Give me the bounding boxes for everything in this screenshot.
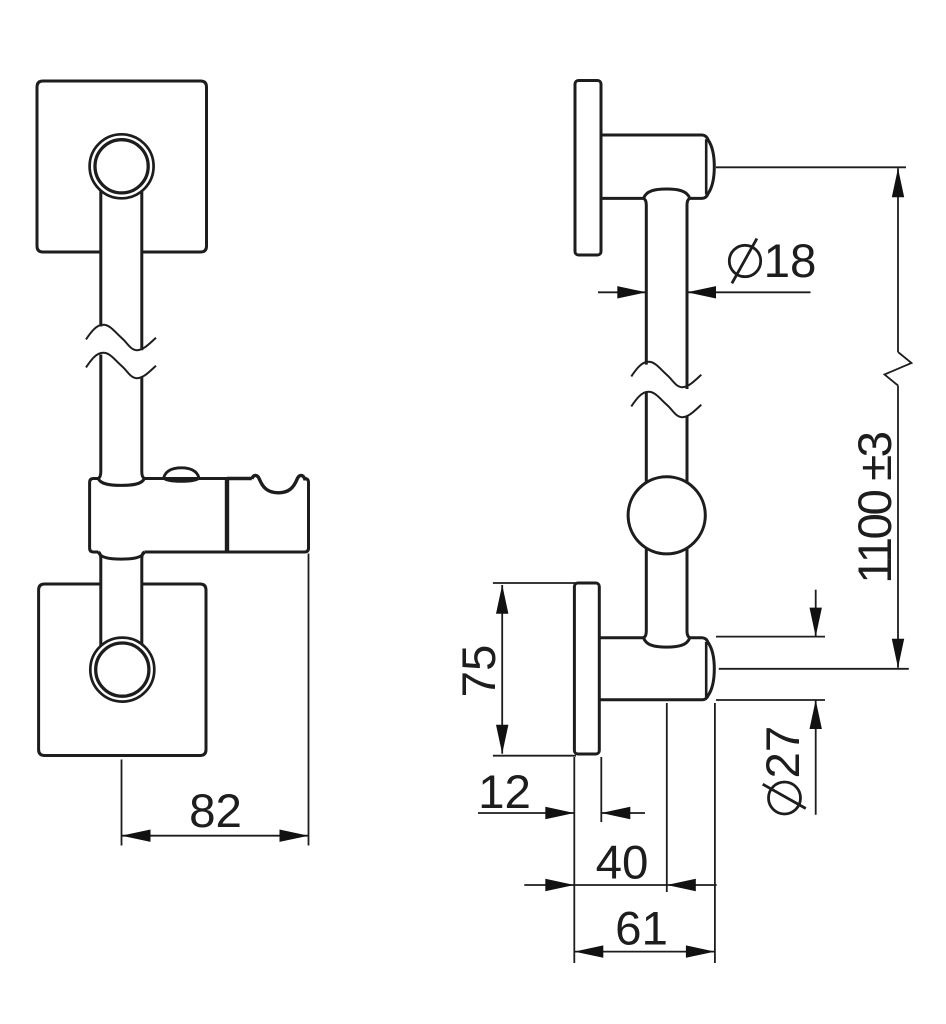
arrow 61 left bbox=[574, 945, 603, 957]
svg-text:27: 27 bbox=[757, 726, 810, 779]
arrow 75 bottom bbox=[496, 725, 508, 754]
slider body outline (front) bbox=[90, 479, 309, 553]
phi18 symbol circle bbox=[729, 245, 760, 276]
slider knob circle (side) bbox=[628, 477, 705, 554]
break wave 1 right bar bbox=[631, 362, 701, 387]
dim phi27 vertical line bottom bbox=[815, 700, 817, 815]
dim 40 extension line (bar axis) bbox=[666, 703, 668, 892]
svg-text:18: 18 bbox=[764, 235, 817, 288]
arrow 75 top bbox=[496, 585, 508, 614]
svg-text:82: 82 bbox=[189, 785, 242, 838]
arrow phi27 bottom bbox=[810, 700, 822, 729]
dim 12 right extension line bbox=[600, 757, 602, 822]
arrow phi18 left bbox=[617, 286, 646, 298]
bottom bracket outer circle (front) bbox=[90, 638, 154, 702]
top bracket inner circle (front) bbox=[95, 140, 148, 193]
break wave 2 right bar bbox=[631, 392, 701, 417]
break wave 1 left bar bbox=[86, 325, 156, 350]
arrow 1100 bottom bbox=[892, 639, 904, 668]
top bar-cylinder bell fillet bbox=[644, 189, 690, 198]
top wall bracket square (front) bbox=[37, 81, 207, 252]
arrowheads bbox=[122, 168, 905, 958]
arrow 1100 top bbox=[892, 168, 904, 197]
arrow 12 right bbox=[601, 807, 630, 819]
svg-text:40: 40 bbox=[596, 837, 649, 890]
arrow phi27 top bbox=[810, 608, 822, 637]
dimension texts bbox=[189, 235, 902, 956]
dim phi27 top extension line bbox=[716, 636, 825, 638]
slider lock button bump bbox=[164, 468, 199, 482]
dim 82 extension line left bbox=[121, 760, 123, 846]
dim 75 vertical line bbox=[501, 585, 503, 754]
arrow 82 left bbox=[122, 830, 151, 842]
dim phi27 bottom extension line bbox=[716, 699, 825, 701]
phi18 symbol slash bbox=[732, 239, 757, 284]
top bracket arm cylinder (side) bbox=[601, 135, 714, 198]
bottom bracket inner circle (front) bbox=[96, 643, 149, 696]
dim 75 bottom extension line bbox=[493, 755, 576, 757]
top bracket outer circle (front) bbox=[90, 134, 154, 198]
dim 82 line bbox=[122, 835, 309, 837]
arrow 40 left bbox=[545, 879, 574, 891]
arrow 82 right bbox=[280, 830, 309, 842]
phi27 symbol circle (rotated) bbox=[763, 782, 806, 814]
bottom wall flange plate (side) bbox=[574, 583, 599, 754]
arrow 12 left bbox=[545, 807, 574, 819]
dim 1100 vertical line with break bbox=[885, 168, 912, 668]
dim phi27 vertical line top bbox=[815, 590, 817, 637]
svg-text:1100 ±3: 1100 ±3 bbox=[849, 432, 902, 583]
dim 61 extension line (cylinder end) bbox=[714, 703, 716, 963]
dim 12 line bbox=[478, 812, 645, 814]
bottom bracket arm cylinder (side) bbox=[599, 638, 714, 700]
dim 61 line bbox=[574, 951, 715, 953]
bottom cylinder end cap line bbox=[705, 642, 708, 697]
top wall flange plate (side) bbox=[575, 81, 601, 256]
1100 bottom reference line bbox=[719, 668, 909, 670]
bar-slider bottom fillet arc bbox=[98, 552, 144, 559]
arrow 61 right bbox=[686, 945, 715, 957]
arrow 40 right bbox=[667, 879, 696, 891]
dim phi18 line right part bbox=[687, 291, 811, 293]
bar upper segment (front) bbox=[98, 190, 144, 646]
arrow phi18 right bbox=[687, 286, 716, 298]
bar segments (side) bbox=[644, 198, 690, 637]
dim phi18 line left part bbox=[598, 291, 646, 293]
slider divider line bbox=[225, 479, 229, 553]
dim 82 extension line right bbox=[308, 554, 310, 846]
dim 12 left extension line (wall side) bbox=[573, 757, 575, 963]
1100 top reference line bbox=[716, 166, 906, 168]
svg-text:12: 12 bbox=[478, 766, 531, 819]
svg-text:61: 61 bbox=[615, 903, 668, 956]
bottom bar-cylinder dip fillet bbox=[644, 638, 690, 647]
top cylinder end cap line bbox=[705, 139, 708, 194]
dim 40 line bbox=[524, 884, 716, 886]
bottom wall bracket square (front) bbox=[39, 584, 206, 756]
dim 75 top extension line bbox=[493, 582, 576, 584]
holder top edge and notch bbox=[227, 475, 307, 492]
bar-slider top fillet arc bbox=[98, 479, 144, 486]
break wave 2 left bar bbox=[86, 353, 156, 378]
svg-text:75: 75 bbox=[453, 645, 506, 698]
